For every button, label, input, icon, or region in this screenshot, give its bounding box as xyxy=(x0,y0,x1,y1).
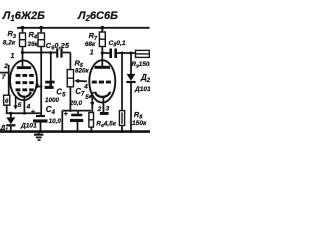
svg-text:3: 3 xyxy=(35,83,39,90)
svg-text:3: 3 xyxy=(106,105,110,112)
svg-text:2: 2 xyxy=(97,106,102,113)
svg-text:1: 1 xyxy=(90,49,94,56)
svg-text:68к: 68к xyxy=(85,41,96,48)
svg-text:Л16Ж2Б: Л16Ж2Б xyxy=(2,10,45,23)
svg-text:1000: 1000 xyxy=(45,97,60,104)
svg-text:+: + xyxy=(31,109,35,116)
svg-text:4: 4 xyxy=(83,83,88,90)
svg-text:Д101: Д101 xyxy=(134,86,150,93)
svg-text:2: 2 xyxy=(3,63,8,70)
svg-text:5: 5 xyxy=(85,94,89,101)
svg-text:150к: 150к xyxy=(132,120,147,127)
svg-text:7: 7 xyxy=(2,74,6,81)
svg-text:8,2к: 8,2к xyxy=(3,40,16,47)
svg-text:820к: 820к xyxy=(75,68,90,75)
svg-text:5: 5 xyxy=(18,102,22,109)
svg-text:Д101: Д101 xyxy=(20,123,37,130)
svg-text:20,0: 20,0 xyxy=(69,100,83,107)
svg-text:1: 1 xyxy=(11,53,15,60)
svg-text:39к: 39к xyxy=(28,41,39,48)
svg-text:6: 6 xyxy=(5,98,9,105)
svg-text:10,0: 10,0 xyxy=(49,118,62,125)
svg-text:4: 4 xyxy=(26,104,31,111)
svg-text:+: + xyxy=(64,111,68,118)
svg-text:Л26С6Б: Л26С6Б xyxy=(77,10,118,23)
